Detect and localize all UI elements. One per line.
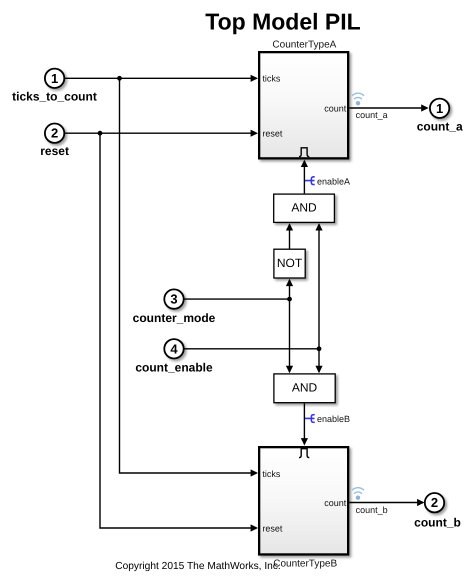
svg-text:count_a: count_a [417,120,463,134]
arrowhead into CounterTypeA reset [251,130,258,137]
node: junction on ticks wire [117,76,122,81]
svg-text:AND: AND [292,381,318,395]
outport 1 count_a [430,99,449,118]
arrowhead into outport count_b [417,499,424,506]
wire: inport2 to CounterTypeA reset [64,132,257,134]
svg-text:reset: reset [262,523,283,533]
outport 2 count_b [425,493,444,512]
trigger pulse symbol (B) [299,449,309,458]
arrowhead into CounterTypeA trigger [301,160,308,167]
node: junction counter_mode [287,297,292,302]
wire: down to AND2 input 2 [318,349,320,372]
svg-text:count_b: count_b [414,516,461,530]
svg-text:counter_mode: counter_mode [133,311,216,325]
inport 4 [164,339,183,358]
wire: counter_mode to NOT / AND2 [184,298,290,300]
arrowhead into NOT [286,279,293,286]
arrowhead into AND1 input 2 [315,223,322,230]
svg-text:2: 2 [51,126,58,141]
svg-text:ticks_to_count: ticks_to_count [12,89,97,103]
svg-text:count: count [324,104,347,114]
svg-text:CounterTypeA: CounterTypeA [272,39,336,50]
wire: branch down to CounterTypeB ticks [120,78,257,473]
arrowhead into CounterTypeB ticks [251,469,258,476]
arrowhead into AND2 input 2 [315,366,322,373]
svg-text:3: 3 [170,292,177,307]
signal name icon enableB [305,415,315,423]
logic block NOT U2 [274,249,305,278]
svg-text:1: 1 [51,71,58,86]
svg-text:count_b: count_b [356,505,388,515]
wire: CounterTypeA count to outport count_a [349,107,427,109]
arrowhead into AND2 input 1 [286,366,293,373]
svg-text:NOT: NOT [277,256,303,270]
wire: count_enable to AND1 / AND2 [184,348,319,350]
svg-text:reset: reset [262,129,283,139]
arrowhead into AND1 input 1 [286,223,293,230]
arrowhead into CounterTypeB reset [251,524,258,531]
logging badge on count_b [352,488,363,500]
node: junction on reset wire [98,131,103,136]
svg-text:ticks: ticks [262,469,281,479]
inport 3 [164,289,183,308]
wire: branch down to CounterTypeB reset [100,133,257,528]
wire: AND2 output enableB to CounterTypeB trigger [303,403,305,444]
svg-text:count_a: count_a [356,110,388,120]
logging badge on count_a [352,93,363,105]
svg-text:2: 2 [431,495,438,510]
inport 1 [45,69,64,88]
svg-text:count_enable: count_enable [135,360,213,374]
signal name icon enableA [305,177,315,185]
trigger pulse symbol (A) [299,148,309,157]
arrowhead into CounterTypeA ticks [251,75,258,82]
subsystem CounterTypeB [259,447,348,554]
inport 2 [45,124,64,143]
logic block AND U1 [274,194,335,222]
svg-text:CounterTypeB: CounterTypeB [273,558,337,569]
logic block AND U3 [274,374,335,403]
wire: AND1 output enableA to CounterTypeA trigger [303,161,305,193]
svg-text:Copyright 2015 The MathWorks,: Copyright 2015 The MathWorks, Inc. [115,561,281,572]
svg-text:1: 1 [436,101,443,116]
wire: up to NOT input [289,280,291,299]
wire: down to AND2 input 1 [289,299,291,372]
wire: inport1 to CounterTypeA ticks [64,77,257,79]
svg-text:AND: AND [291,201,317,215]
arrowhead into outport count_a [421,104,428,111]
arrowhead into CounterTypeB trigger [301,438,308,445]
svg-text:count: count [324,498,347,508]
svg-text:reset: reset [40,144,69,158]
svg-text:ticks: ticks [262,74,281,84]
node: junction count_enable [317,346,322,351]
wire: NOT output to AND1 input 1 [289,224,291,248]
svg-text:enableA: enableA [317,176,350,186]
subsystem CounterTypeA [259,52,348,158]
svg-text:Top Model PIL: Top Model PIL [205,9,360,35]
wire: up to AND1 input 2 [318,224,320,348]
wire: CounterTypeB count to outport count_b [349,502,423,504]
svg-text:4: 4 [170,341,178,356]
svg-text:enableB: enableB [317,414,350,424]
